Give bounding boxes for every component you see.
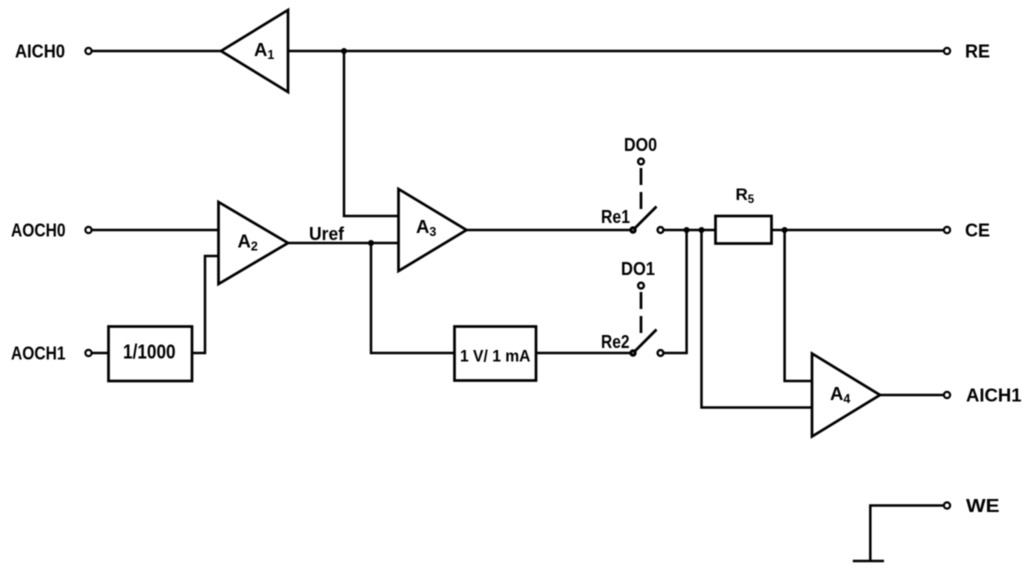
svg-text:Re2: Re2 bbox=[601, 332, 630, 352]
terminal AICH1 bbox=[944, 392, 950, 398]
svg-text:1/1000: 1/1000 bbox=[123, 342, 176, 364]
op-amp A2 bbox=[219, 202, 289, 284]
block 1/1000 bbox=[109, 327, 193, 382]
wire A1 output to RE terminal bbox=[288, 50, 943, 53]
svg-text:R5: R5 bbox=[736, 185, 755, 206]
svg-text:Uref: Uref bbox=[309, 224, 345, 244]
wire Re1 contact to CE terminal (through R5) bbox=[664, 229, 943, 232]
wire CE node after R5 down to A4 upper input bbox=[785, 230, 812, 381]
control DO0 dashed line bbox=[640, 168, 643, 209]
terminal AICH0 bbox=[85, 48, 91, 54]
terminal WE bbox=[944, 502, 950, 508]
wire AOCH0 to A2 upper input bbox=[93, 229, 219, 232]
terminal AOCH1 bbox=[85, 350, 91, 356]
block 1V/1mA bbox=[455, 327, 537, 381]
svg-text:AICH1: AICH1 bbox=[966, 385, 1022, 406]
switch Re1 contact circle bbox=[658, 227, 664, 233]
switch Re2 contact circle bbox=[658, 350, 664, 356]
node to A4 lower input bbox=[699, 227, 705, 233]
node Uref bbox=[368, 240, 374, 246]
wire Re2 contact up to CE line bbox=[664, 230, 687, 353]
svg-text:AOCH0: AOCH0 bbox=[11, 220, 66, 241]
terminal CE bbox=[944, 227, 950, 233]
switch Re1 arm bbox=[633, 207, 657, 231]
op-amp A4 bbox=[812, 354, 880, 437]
svg-text:RE: RE bbox=[965, 41, 990, 62]
wire WE terminal to ground bbox=[870, 506, 943, 562]
switch Re2 pivot bbox=[629, 349, 636, 356]
svg-text:WE: WE bbox=[966, 495, 1000, 516]
op-amp A1 bbox=[221, 10, 288, 92]
wire 1V/1mA output to switch Re2 bbox=[536, 352, 633, 355]
wire node at A1 output down to A3 upper input bbox=[344, 51, 399, 216]
op-amp A3 bbox=[399, 189, 467, 271]
svg-text:CE: CE bbox=[965, 220, 990, 241]
svg-text:AOCH1: AOCH1 bbox=[11, 343, 66, 364]
node at A1 output bbox=[341, 48, 347, 54]
ground bbox=[853, 560, 884, 563]
wire Uref: A2 output to A3 lower input bbox=[288, 242, 399, 245]
switch Re2 arm bbox=[633, 330, 657, 354]
wire AICH0 to A1 apex bbox=[93, 50, 222, 53]
wire AOCH1 to 1/1000 box bbox=[93, 352, 109, 355]
wire A4 output to AICH1 terminal bbox=[880, 394, 943, 397]
svg-text:Re1: Re1 bbox=[601, 207, 630, 227]
terminal RE bbox=[944, 48, 950, 54]
wire 1/1000 output up to A2 lower input bbox=[192, 256, 219, 353]
wire Uref node down to 1V/1mA box input bbox=[371, 243, 455, 353]
control DO1 circle bbox=[638, 283, 644, 289]
terminal AOCH0 bbox=[85, 227, 91, 233]
node Re1/Re2 join bbox=[684, 227, 690, 233]
switch Re1 pivot bbox=[629, 226, 636, 233]
control DO0 circle bbox=[638, 159, 644, 165]
svg-text:AICH0: AICH0 bbox=[15, 41, 65, 62]
wire CE node down to A4 lower input bbox=[702, 230, 813, 408]
control DO1 dashed line bbox=[640, 292, 643, 334]
wire A3 output to switch Re1 bbox=[467, 229, 634, 232]
svg-text:DO1: DO1 bbox=[621, 259, 655, 279]
node after R5 bbox=[782, 227, 788, 233]
svg-text:1 V/ 1 mA: 1 V/ 1 mA bbox=[460, 347, 531, 366]
resistor R5 box bbox=[716, 216, 772, 244]
svg-text:DO0: DO0 bbox=[624, 135, 657, 155]
